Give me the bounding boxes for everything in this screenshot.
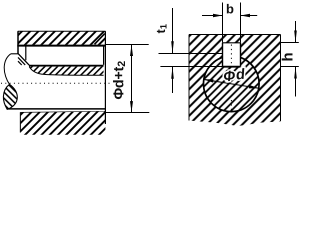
h extension line upper (key top) [281, 42, 299, 44]
hub top outline [18, 30, 106, 32]
label b [227, 4, 234, 14]
hub right face [104, 31, 106, 124]
arrow up [130, 45, 133, 56]
hub block left edge [188, 35, 190, 121]
extension line top (hub keyway bottom) [106, 44, 149, 46]
Phi d diameter dimension line [204, 79, 259, 88]
dimension line Phi d+t2 [131, 45, 133, 113]
t1 dimension line lower + arrow up [172, 67, 174, 94]
h dimension line lower + arrow up [295, 67, 297, 97]
ramp echo hatch strokes [18, 57, 25, 65]
shaft bottom / bore bottom line [8, 108, 106, 110]
label Phi d+t2 (rotated) [113, 61, 125, 99]
hub lower section hatching [21, 112, 106, 135]
shaft top line left of hub [11, 53, 18, 55]
arrow right [249, 85, 259, 88]
h extension line lower (key bottom) [281, 66, 299, 68]
shaft break lens (hatched) [3, 84, 17, 109]
t1 extension line upper (shaft tangent) [159, 53, 223, 55]
b dimension line left segment + arrow [202, 15, 223, 17]
key right side [240, 43, 242, 67]
keyway / key (white) [223, 43, 241, 67]
key top line [223, 42, 241, 44]
hub block right edge [280, 35, 282, 122]
broken-out boundary wavy line [29, 67, 103, 76]
b dimension extension lines [222, 3, 224, 43]
hub left face [17, 31, 19, 54]
t1 extension line lower (keyway bottom) [160, 66, 222, 68]
shaft broken-out section hatch wedge below key [29, 67, 103, 76]
key bottom / shaft keyway bottom line [29, 65, 104, 67]
arrow left [204, 79, 214, 82]
hub block top outline [189, 34, 281, 36]
key bottom line [223, 66, 241, 68]
key right end edge [103, 46, 105, 64]
hub lower left edge [19, 112, 21, 132]
hub lower bore line [20, 112, 105, 113]
hub upper heavy last hatch stroke [95, 34, 105, 45]
t1 dimension line upper + arrow down [172, 8, 174, 54]
h dimension line upper + arrow down [295, 21, 297, 43]
key left side [222, 43, 224, 67]
label t1 (rotated) [157, 24, 167, 33]
hub block section hatching (ragged bottom) [189, 35, 281, 126]
b dimension line right segment + arrow [241, 15, 258, 17]
extension line bottom (bore bottom) [106, 112, 150, 114]
hub keyway bottom / key top line [17, 45, 105, 47]
shaft keyway end ramp [18, 54, 29, 65]
arrow down [130, 101, 133, 112]
shaft circle [204, 56, 260, 112]
vertical centreline (dash-dot) [230, 45, 232, 65]
label h (rotated) [282, 53, 293, 60]
label Phi d (rotated italic) [224, 68, 244, 81]
hub upper section hatching [18, 32, 106, 45]
shaft break S-curve [4, 54, 11, 85]
shaft centreline (fine dots) [1, 82, 112, 84]
key left end edge [25, 46, 27, 60]
